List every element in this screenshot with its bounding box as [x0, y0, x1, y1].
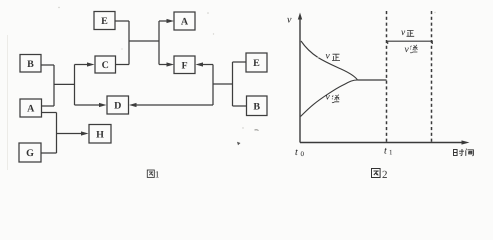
- wire B1 output: [41, 64, 54, 66]
- label time: glyph shi: [454, 149, 465, 156]
- label v-forward on curve: [326, 52, 331, 62]
- arrow into D left: [99, 103, 107, 107]
- v axis: [299, 18, 301, 143]
- svg-text:B: B: [27, 59, 34, 70]
- wire bus to CD splitter: [54, 83, 75, 85]
- wire into F right: [202, 64, 213, 66]
- svg-text:E: E: [101, 16, 108, 27]
- svg-text:v: v: [326, 93, 331, 103]
- dashed line right: [431, 11, 433, 143]
- wire splitter vertical to F and D: [212, 65, 214, 106]
- scan speckle 5: [242, 127, 243, 128]
- arrow into D right: [129, 103, 137, 107]
- svg-text:1: 1: [155, 170, 160, 180]
- svg-text:t: t: [384, 146, 387, 157]
- scan speckle 6: [317, 57, 318, 58]
- figure 2 caption: glyph tu: [372, 169, 381, 178]
- wire E2 output: [233, 61, 247, 63]
- wire bus B1-A1: [53, 65, 55, 106]
- arrow into H: [81, 131, 89, 135]
- block G: [19, 143, 41, 162]
- v axis arrowhead: [298, 13, 302, 20]
- wire C output: [116, 64, 130, 66]
- wire into D left: [75, 104, 101, 106]
- wire into A2: [159, 20, 168, 22]
- dashed line at t1: [386, 11, 388, 143]
- curve v-reverse (rising): [301, 80, 358, 117]
- wire into H: [57, 133, 83, 135]
- glyph ni (between dashes): [410, 45, 417, 53]
- wire A1 upper stub: [41, 105, 54, 107]
- time axis arrowhead: [462, 140, 470, 144]
- wire A1 lower stub: [41, 112, 57, 114]
- svg-text:F: F: [181, 60, 187, 71]
- arrow into F right: [196, 62, 204, 66]
- wire bus A1-G: [56, 113, 58, 154]
- glyph zheng (between dashes): [407, 31, 415, 37]
- wire G output: [41, 152, 57, 154]
- scan noise mark r: [255, 129, 259, 132]
- block E2 (right): [246, 53, 267, 72]
- svg-text:0: 0: [301, 150, 305, 158]
- bracket between dashed lines: [388, 41, 433, 44]
- arrow into F left: [167, 62, 175, 66]
- block H: [89, 125, 111, 144]
- block A1 (left): [20, 99, 42, 117]
- wire into F left: [159, 64, 168, 66]
- wire bus to FD splitter: [213, 83, 233, 85]
- glyph ni (curve label): [332, 95, 339, 103]
- block F: [174, 56, 195, 74]
- label time: glyph jian: [466, 149, 474, 156]
- scan speckle 2: [207, 12, 209, 14]
- scan speckle 3: [213, 33, 214, 34]
- wire merged horizontal to splitter: [129, 40, 159, 42]
- wire bus E2-B2: [232, 62, 234, 106]
- curve v-forward (decaying): [301, 41, 358, 80]
- svg-text:G: G: [26, 148, 34, 159]
- svg-text:v: v: [401, 28, 406, 38]
- svg-text:v: v: [287, 15, 292, 26]
- block C: [95, 56, 116, 73]
- svg-text:B: B: [253, 101, 260, 112]
- block E1 (top): [94, 12, 115, 30]
- wire into D right: [136, 104, 214, 106]
- wire splitter vertical to C and D: [74, 65, 76, 106]
- block A2 (top right): [174, 12, 195, 30]
- svg-text:t: t: [295, 147, 298, 158]
- block B1 (left): [20, 55, 41, 73]
- wire E1 output: [115, 20, 129, 22]
- arrow into A2: [167, 19, 175, 23]
- svg-text:C: C: [102, 60, 109, 71]
- svg-text:D: D: [114, 101, 121, 112]
- svg-text:H: H: [96, 129, 104, 140]
- svg-text:v: v: [405, 45, 410, 55]
- scan noise mark triangle: [237, 142, 241, 145]
- figure 1 caption: glyph tu: [147, 170, 154, 177]
- arrow into C: [87, 62, 95, 66]
- svg-text:1: 1: [389, 149, 393, 157]
- svg-text:A: A: [181, 17, 189, 28]
- svg-text:A: A: [27, 104, 35, 115]
- svg-text:2: 2: [382, 169, 388, 181]
- svg-text:E: E: [253, 58, 260, 69]
- scan speckle 1: [58, 7, 59, 8]
- equilibrium flat line: [358, 79, 387, 81]
- block B2 (right): [247, 96, 268, 116]
- scan speckle 4: [121, 48, 122, 49]
- faint page rule left edge: [7, 35, 9, 170]
- glyph zheng (curve label): [332, 54, 340, 60]
- wire B2 output: [233, 105, 247, 107]
- wire merge vertical E1+C: [128, 21, 130, 65]
- scan speckle 7: [434, 12, 435, 13]
- svg-text:v: v: [326, 52, 331, 62]
- time axis: [300, 142, 463, 144]
- wire into C: [75, 64, 89, 66]
- wire splitter vertical to A2 and F: [158, 21, 160, 65]
- block D: [107, 96, 129, 114]
